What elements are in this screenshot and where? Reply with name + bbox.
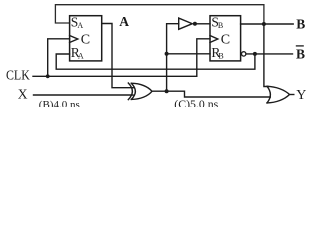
wire B output [241,23,294,25]
or gate back arc [267,86,270,103]
bubble Qbar of B [242,52,246,56]
wire XOR up to inverter [167,24,179,92]
svg-text:B: B [296,16,305,31]
flip-flop A box [70,16,102,61]
wire A output down to XOR [102,24,134,88]
wire CLK up to C of A [48,39,70,77]
overbar of Bbar [296,45,304,47]
wire RA from Bbar feedback [56,54,255,69]
svg-text:A: A [119,14,129,29]
svg-text:B: B [218,21,223,30]
xor gate body [131,83,152,99]
wire feedback B to SA (top) [55,5,264,24]
xor gate input arc [128,83,132,100]
svg-text:(C)5.0 ns: (C)5.0 ns [174,97,218,107]
wire CLK main [33,75,197,77]
svg-text:X: X [18,86,28,101]
junction CLK-A [46,74,50,78]
svg-text:(B)4.0 ns: (B)4.0 ns [39,99,80,107]
wire Bbar output [246,53,293,55]
flip-flop B clock chevron [210,36,218,43]
svg-text:Y: Y [296,88,306,103]
svg-text:C: C [81,33,90,48]
wire X input [34,94,134,96]
inverter triangle [179,18,193,29]
wire XOR output [152,91,270,97]
or gate body [267,86,290,103]
junction XOR out [165,89,169,93]
wire B down to OR top input [264,24,269,87]
junction Bbar feedback [253,52,257,56]
wire Y output [290,94,294,96]
svg-text:A: A [77,21,83,30]
flip-flop B box [210,16,241,61]
svg-text:CLK: CLK [6,69,30,84]
wire inverter to SB [197,23,210,25]
svg-text:B: B [296,47,305,62]
svg-text:B: B [218,51,223,60]
inverter output dot [193,22,197,26]
svg-text:C: C [221,33,230,48]
svg-text:A: A [78,51,84,60]
wire CLK up to C of B [197,39,210,77]
junction RB branch [165,52,169,56]
wire to RB [167,53,210,55]
junction B [262,22,266,26]
flip-flop A clock chevron [70,36,78,43]
